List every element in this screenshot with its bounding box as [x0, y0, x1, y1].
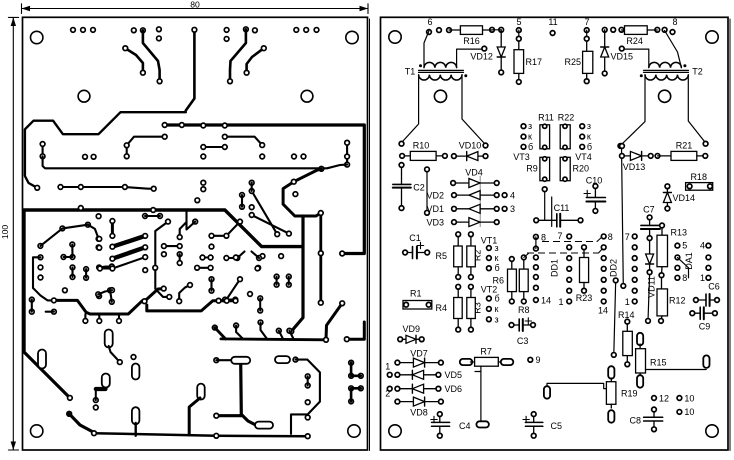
wire cluster top left — [125, 48, 143, 72]
resistor R19 — [608, 366, 614, 379]
resistor R15 — [637, 333, 643, 346]
svg-text:R9: R9 — [526, 164, 538, 174]
svg-text:к: к — [587, 132, 591, 142]
svg-text:VD15: VD15 — [611, 52, 634, 62]
svg-text:R15: R15 — [650, 358, 667, 368]
dense pads upper mid — [143, 214, 148, 219]
svg-text:VD12: VD12 — [470, 52, 493, 62]
svg-text:R4: R4 — [435, 303, 447, 313]
wire parallel diagonals — [252, 191, 278, 234]
svg-text:4: 4 — [510, 190, 515, 200]
svg-text:T2: T2 — [692, 67, 703, 77]
svg-text:8: 8 — [682, 273, 687, 283]
svg-text:T1: T1 — [405, 67, 416, 77]
svg-text:4: 4 — [700, 241, 705, 251]
svg-text:7: 7 — [584, 17, 589, 27]
svg-text:8: 8 — [608, 232, 613, 242]
svg-text:R24: R24 — [626, 36, 643, 46]
wire bottom right elbow — [347, 322, 365, 339]
diode VD15 — [604, 30, 606, 74]
wire dense region top edge — [24, 210, 301, 352]
svg-text:R7: R7 — [480, 347, 492, 357]
wire rail y125 to right edge — [165, 125, 365, 254]
dense hatch pads — [110, 234, 115, 239]
right assembly board outline — [381, 17, 729, 450]
transistor VT3 pads — [521, 124, 526, 129]
svg-text:VT4: VT4 — [575, 152, 592, 162]
pad 12 — [652, 396, 657, 401]
diode VD12 — [500, 30, 502, 73]
wire bottom mid 2 — [275, 356, 290, 363]
wire node line — [426, 169, 428, 212]
svg-text:б: б — [587, 142, 592, 152]
dense wire bottom boundary A — [54, 300, 145, 314]
capacitor C2 — [401, 165, 403, 185]
dense hatch diagonals — [111, 221, 114, 236]
svg-text:C4: C4 — [459, 421, 471, 431]
svg-text:VD7: VD7 — [410, 348, 428, 358]
svg-text:9: 9 — [536, 355, 541, 365]
pads 10 — [677, 396, 682, 401]
wire thick C branch — [283, 169, 321, 216]
diode VD8 — [397, 401, 441, 403]
svg-text:R6: R6 — [492, 276, 504, 286]
transistor VT4 pads — [580, 124, 585, 129]
svg-text:R21: R21 — [676, 141, 693, 151]
svg-text:R18: R18 — [690, 172, 707, 182]
svg-text:к: к — [495, 253, 499, 263]
wire cluster top right — [230, 29, 246, 81]
dense pads right pairs — [274, 274, 279, 279]
svg-text:3: 3 — [510, 204, 515, 214]
svg-text:8: 8 — [672, 17, 677, 27]
svg-text:5: 5 — [682, 241, 687, 251]
oval column left bottom — [38, 350, 46, 369]
wire long rail y168 — [43, 156, 348, 168]
resistor R16 — [449, 29, 460, 31]
wire bottom mid T — [241, 363, 256, 425]
resistor R23 — [583, 247, 585, 257]
wire vertical oval to rail — [197, 384, 205, 400]
svg-text:80: 80 — [190, 0, 200, 9]
svg-text:VD3: VD3 — [426, 217, 444, 227]
svg-text:C6: C6 — [708, 282, 720, 292]
svg-text:VD13: VD13 — [623, 162, 646, 172]
svg-text:2: 2 — [385, 389, 390, 399]
resistor R17 — [518, 39, 520, 50]
svg-text:R8: R8 — [518, 305, 530, 315]
IC DD2 pads left — [601, 234, 606, 239]
capacitor C11 — [542, 187, 547, 192]
svg-text:з: з — [495, 314, 499, 324]
wire long vertical center top — [186, 30, 195, 111]
svg-text:з: з — [587, 121, 591, 131]
svg-text:DD1: DD1 — [550, 259, 560, 277]
svg-text:1: 1 — [700, 273, 705, 283]
wire pad links top — [492, 29, 501, 31]
wire thick vertical x302 — [291, 216, 303, 331]
pads bottom mid verticals — [305, 374, 310, 379]
svg-text:VD11: VD11 — [647, 276, 657, 298]
svg-text:1: 1 — [558, 297, 563, 307]
wire diagonal bottom right — [326, 303, 342, 340]
wire left border bottom — [24, 352, 70, 398]
svg-text:VD10: VD10 — [459, 141, 482, 151]
svg-text:VD6: VD6 — [445, 384, 463, 394]
wire L shape bottom left — [96, 381, 106, 389]
wire C5 to R19 — [547, 383, 606, 388]
svg-text:VD1: VD1 — [426, 204, 444, 214]
svg-text:C9: C9 — [699, 322, 711, 332]
svg-text:C5: C5 — [551, 421, 563, 431]
wire bottom rail — [94, 433, 308, 436]
wire thick vertical x320 — [319, 213, 322, 303]
diode VD14 — [666, 186, 668, 206]
svg-text:C1: C1 — [409, 233, 421, 243]
svg-text:VD5: VD5 — [445, 370, 463, 380]
svg-text:C3: C3 — [517, 336, 529, 346]
svg-text:7: 7 — [557, 231, 562, 241]
wire rail y339 — [221, 337, 326, 341]
dense pads left cluster — [38, 244, 43, 249]
svg-text:6: 6 — [427, 17, 432, 27]
svg-text:DD2: DD2 — [609, 259, 619, 277]
svg-text:VD14: VD14 — [673, 193, 696, 203]
pad cluster bottom right — [349, 360, 354, 365]
svg-text:R20: R20 — [573, 164, 590, 174]
svg-text:б: б — [495, 294, 500, 304]
svg-text:DA1: DA1 — [684, 252, 694, 270]
resistor R25 — [586, 39, 588, 52]
IC DA1 pads left — [675, 243, 680, 248]
diode VD5 — [397, 374, 438, 376]
svg-text:C2: C2 — [413, 183, 425, 193]
svg-text:100: 100 — [0, 225, 10, 240]
svg-text:R1: R1 — [410, 289, 422, 299]
svg-text:R17: R17 — [526, 57, 543, 67]
svg-text:1: 1 — [625, 297, 630, 307]
svg-text:R14: R14 — [618, 310, 635, 320]
svg-text:R22: R22 — [558, 113, 575, 123]
svg-text:5: 5 — [516, 17, 521, 27]
svg-text:R25: R25 — [564, 57, 581, 67]
svg-text:7: 7 — [625, 232, 630, 242]
left PCB board outline — [23, 17, 368, 450]
svg-text:14: 14 — [541, 296, 551, 306]
svg-text:C11: C11 — [554, 203, 570, 213]
svg-text:C8: C8 — [629, 416, 641, 426]
wire elbow mid — [127, 137, 165, 146]
pads pairs above dense zone — [201, 180, 206, 185]
pads column x251 — [240, 193, 245, 198]
wire staircase trace — [25, 112, 186, 188]
mounting holes right board — [389, 31, 401, 43]
svg-text:C7: C7 — [643, 204, 655, 214]
svg-text:к: к — [495, 304, 499, 314]
svg-text:10: 10 — [684, 393, 694, 403]
dimension 100 left — [8, 16, 18, 18]
dense pads lower row — [248, 292, 253, 297]
capacitor C9 — [692, 312, 700, 314]
svg-text:11: 11 — [548, 17, 557, 27]
dense wires mid-right — [212, 222, 241, 236]
resistor R8 — [523, 257, 525, 269]
dense wires mid-left — [155, 222, 169, 297]
svg-text:к: к — [528, 132, 532, 142]
svg-text:з: з — [528, 121, 532, 131]
svg-text:R11: R11 — [538, 113, 554, 123]
resistor R24 — [622, 29, 625, 31]
pads top row — [71, 28, 76, 33]
svg-text:R10: R10 — [413, 141, 430, 151]
wire bottom row y187 — [61, 187, 154, 189]
svg-text:R23: R23 — [576, 293, 593, 303]
svg-text:14: 14 — [598, 306, 608, 316]
dense wire bottom boundary B — [147, 301, 236, 311]
diode VD11 — [647, 236, 652, 241]
svg-text:10: 10 — [684, 407, 694, 417]
svg-text:VD2: VD2 — [426, 190, 444, 200]
svg-text:з: з — [495, 243, 499, 253]
wire vertical to R14 — [614, 280, 616, 355]
svg-text:R19: R19 — [621, 389, 638, 399]
svg-text:VT3: VT3 — [513, 152, 530, 162]
wire branch below rail — [225, 137, 262, 145]
svg-text:8: 8 — [541, 232, 546, 242]
wire right trio — [346, 143, 348, 165]
svg-text:б: б — [528, 142, 533, 152]
dense wires left — [40, 225, 88, 246]
dimension 80 top — [21, 4, 23, 14]
svg-text:R13: R13 — [671, 228, 688, 238]
pad 9 — [528, 357, 533, 362]
svg-text:б: б — [495, 263, 500, 273]
pads top row right panel — [427, 30, 432, 35]
svg-text:12: 12 — [659, 393, 669, 403]
wire pad pair — [203, 146, 225, 148]
wire diagonal to rail — [215, 328, 226, 339]
svg-text:R5: R5 — [435, 251, 447, 261]
wire T2 to DD2 — [622, 146, 624, 286]
diode VD13 — [622, 155, 651, 157]
mounting holes left board — [31, 31, 43, 43]
svg-text:VD8: VD8 — [410, 408, 428, 418]
svg-text:R16: R16 — [463, 36, 480, 46]
free pads mid — [83, 154, 88, 159]
diode VD6 — [397, 388, 438, 390]
dashed net lines — [527, 252, 599, 254]
svg-text:1: 1 — [385, 362, 390, 372]
wire vertical pair left — [42, 144, 44, 156]
pads column DIP left of DD1 — [534, 234, 539, 239]
svg-text:VD9: VD9 — [403, 324, 421, 334]
svg-text:R12: R12 — [669, 296, 686, 306]
